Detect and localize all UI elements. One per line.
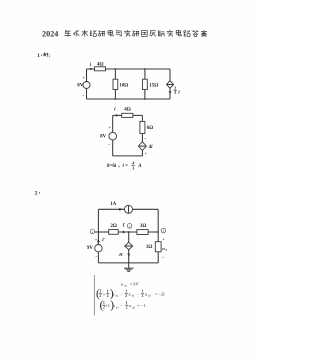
current arrow i (circuit 1b) [113, 107, 122, 116]
node dot top-left (circuit 1) [115, 68, 117, 70]
svg-text:2024: 2024 [42, 30, 58, 39]
left branch wire + arrow I' (circuit 2) [95, 209, 106, 244]
svg-text:1: 1 [107, 289, 109, 293]
svg-text:1: 1 [37, 53, 40, 59]
node dot top-right (circuit 1) [144, 68, 146, 70]
wire left branch (circuit 1) [86, 69, 88, 99]
svg-text:A: A [137, 164, 142, 169]
svg-text:2: 2 [126, 306, 128, 310]
bottom wire (circuit 2) [98, 262, 158, 264]
svg-text:1A: 1A [110, 202, 117, 207]
node 1 label (circuit 2) [90, 229, 95, 234]
svg-text:3: 3 [163, 229, 165, 233]
equation un1 = 9V [121, 281, 140, 287]
svg-text:6Ω: 6Ω [147, 126, 154, 131]
svg-text:15Ω: 15Ω [149, 83, 158, 88]
svg-text:2: 2 [142, 294, 144, 298]
svg-text:= 9V: = 9V [129, 281, 140, 286]
svg-text:2: 2 [107, 294, 109, 298]
svg-text:1: 1 [92, 230, 94, 234]
resistor 1ohm with u3 (circuit 2) [146, 209, 168, 263]
svg-text:1: 1 [125, 289, 127, 293]
svg-text:4i: 4i [148, 145, 154, 150]
resistor 4ohm (circuit 1) [95, 63, 106, 71]
bottom wire (circuit 1b) [113, 155, 143, 157]
node dot bottom-left (circuit 1) [115, 98, 117, 100]
voltage source 9V (circuit 2) [87, 245, 102, 263]
svg-text:2: 2 [125, 294, 127, 298]
svg-text:= −2I: = −2I [155, 291, 165, 296]
resistor 10ohm branch (circuit 1) [113, 69, 128, 99]
resistor 4ohm (circuit 1b) [122, 107, 133, 117]
title: 2024 shuimu luoyan electrical exam answers [42, 30, 207, 39]
svg-text:= −1: = −1 [137, 303, 145, 308]
problem 1 label [37, 52, 51, 59]
middle wire right segment (circuit 2) [148, 231, 158, 233]
svg-text:4Ω: 4Ω [124, 107, 131, 112]
node 2 label (circuit 2) [127, 224, 132, 229]
node dot bottom-right (circuit 1) [144, 98, 146, 100]
solution equation 8=6i, i=4/3 A [107, 161, 142, 171]
svg-text:2: 2 [129, 224, 131, 228]
problem 2 label [35, 190, 40, 196]
resistor 6ohm (circuit 1b) [140, 115, 153, 133]
resistor 15ohm branch (circuit 1) [143, 69, 159, 99]
svg-text:8V: 8V [77, 84, 84, 89]
svg-text:3: 3 [174, 90, 176, 95]
dependent current source 2I (circuit 2) [118, 232, 133, 263]
current arrow I (circuit 2) [118, 224, 137, 234]
svg-text:10Ω: 10Ω [119, 83, 128, 88]
svg-text:3Ω: 3Ω [140, 224, 147, 229]
svg-text:1: 1 [126, 301, 128, 305]
equation system brace line [93, 275, 95, 316]
bottom wire (circuit 1) [87, 98, 171, 100]
wire top right corner (circuit 1b) [133, 114, 143, 116]
node dot right junction (circuit 2) [157, 231, 159, 233]
top wire (circuit 1) [106, 68, 171, 70]
current source 1A (circuit 2) [98, 202, 158, 213]
middle wire left segment (circuit 2) [95, 231, 109, 233]
ground (circuit 2) [124, 263, 133, 271]
voltage source 8V (circuit 1b) [100, 115, 116, 155]
equation node 2 [96, 286, 165, 300]
svg-text:i =: i = [123, 164, 129, 169]
svg-text:1: 1 [142, 289, 144, 293]
svg-text:1Ω: 1Ω [146, 245, 153, 250]
svg-text:2I: 2I [118, 252, 123, 257]
resistor 3ohm (circuit 2) [137, 224, 148, 235]
current arrow i on top wire (circuit 1) [87, 63, 95, 70]
equation node 3 [100, 298, 146, 312]
dependent voltage source 4i (circuit 1b) [138, 134, 153, 157]
svg-text:8=6i: 8=6i [107, 164, 117, 169]
voltage source 8V (circuit 1) [77, 75, 90, 98]
svg-text:9V: 9V [87, 246, 94, 251]
svg-text:2Ω: 2Ω [110, 224, 117, 229]
resistor 2ohm (circuit 2) [109, 224, 119, 234]
svg-text:I′: I′ [101, 237, 106, 242]
dependent current source 2/3 i (circuit 1) [166, 69, 180, 99]
node 3 label (circuit 2) [161, 228, 166, 233]
svg-text:3: 3 [132, 165, 134, 170]
node dot middle junction (circuit 2) [128, 231, 130, 233]
svg-text:8V: 8V [100, 135, 107, 140]
svg-text:1: 1 [100, 289, 102, 293]
svg-text:2: 2 [35, 190, 38, 196]
svg-text:4Ω: 4Ω [97, 63, 104, 68]
